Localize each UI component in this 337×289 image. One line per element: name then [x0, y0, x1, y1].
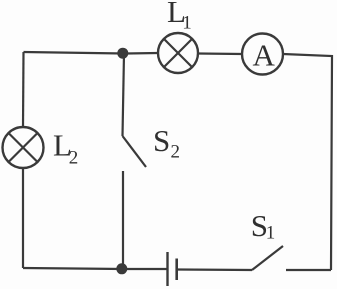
svg-text:1: 1 [182, 12, 192, 33]
svg-text:1: 1 [266, 223, 276, 244]
svg-text:A: A [253, 38, 276, 73]
svg-text:S: S [153, 123, 170, 158]
svg-text:2: 2 [69, 148, 79, 169]
svg-text:2: 2 [171, 142, 181, 163]
